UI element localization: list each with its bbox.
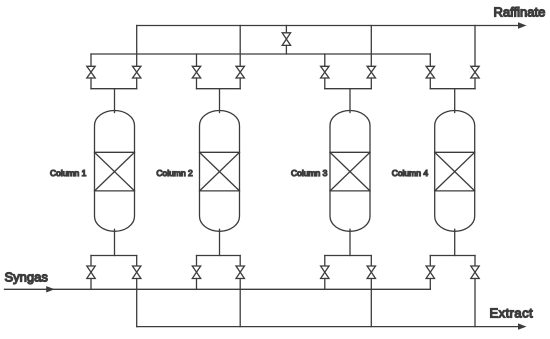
bypass valve V0 <box>282 33 290 46</box>
bottom valve V4RB <box>471 266 479 279</box>
column 1 bottom stub wire <box>114 229 116 255</box>
column 4 top valve tails <box>429 78 431 89</box>
column 4 right tail to extract line <box>474 279 476 327</box>
column 4 left drop wire (header to valve) <box>429 54 431 66</box>
column C1 packing (crossed box) <box>95 152 135 191</box>
column 4 bottom connector wire <box>430 255 475 257</box>
extract line <box>137 326 521 328</box>
column 2 bottom stub wire <box>219 229 221 255</box>
bottom valve V2LB <box>192 266 200 279</box>
svg-text:Column 1: Column 1 <box>50 168 87 178</box>
top valve V3L <box>321 66 329 78</box>
column C4 vessel <box>435 111 475 232</box>
column 2 right riser wire (top line to valve) <box>239 26 241 67</box>
bypass riser wire <box>285 26 287 33</box>
column 3 top stub wire <box>349 89 351 113</box>
column 4 right riser wire (top line to valve) <box>474 26 476 67</box>
column 3 right riser wire (top line to valve) <box>370 26 372 67</box>
column 4 top stub wire <box>454 89 456 113</box>
bottom valve V3RB <box>367 266 375 279</box>
column 3 top connector wire <box>325 88 372 90</box>
bottom valve V4LB <box>426 266 434 279</box>
column C3 vessel <box>330 111 370 232</box>
column C2 vessel <box>200 111 240 232</box>
column 2 top valve tails <box>196 78 198 89</box>
column 3 bottom connector wire <box>325 255 372 257</box>
svg-text:Column 4: Column 4 <box>392 168 429 178</box>
top valve V1L <box>87 66 95 78</box>
top valve V4R <box>471 66 479 78</box>
bottom valve V3LB <box>321 266 329 279</box>
svg-text:Column 3: Column 3 <box>291 168 328 178</box>
column 2 right tail to extract line <box>239 279 241 327</box>
svg-text:Extract: Extract <box>490 306 534 321</box>
column 2 top stub wire <box>219 89 221 113</box>
column 2 bottom valve heads <box>196 256 198 267</box>
column 4 bottom stub wire <box>454 229 456 255</box>
column 1 left drop wire (header to valve) <box>90 54 92 66</box>
raffinate header line <box>137 25 521 27</box>
column C2 packing (crossed box) <box>200 152 240 191</box>
column 4 left tail to syngas line <box>429 279 431 290</box>
column 1 top connector wire <box>91 88 137 90</box>
column 1 left tail to syngas line <box>90 279 92 290</box>
svg-text:Syngas: Syngas <box>5 270 49 285</box>
svg-text:Column 2: Column 2 <box>156 168 193 178</box>
top valve V3R <box>367 66 375 78</box>
column 3 right tail to extract line <box>370 279 372 327</box>
bottom valve V1RB <box>133 266 141 279</box>
column 2 left drop wire (header to valve) <box>196 54 198 66</box>
column 4 top connector wire <box>430 88 475 90</box>
raffinate arrowhead <box>518 22 527 28</box>
column 3 left tail to syngas line <box>324 279 326 290</box>
column 1 top stub wire <box>114 89 116 113</box>
bottom valve V1LB <box>87 266 95 279</box>
column 4 bottom valve heads <box>429 256 431 267</box>
top valve V2L <box>192 66 200 78</box>
column 1 bottom connector wire <box>91 255 137 257</box>
svg-text:Raffinate: Raffinate <box>494 5 546 20</box>
bypass lower wire <box>285 45 287 54</box>
column C1 vessel <box>95 111 135 232</box>
column 2 bottom connector wire <box>197 255 241 257</box>
column 1 top valve tails <box>90 78 92 89</box>
column 3 bottom valve heads <box>324 256 326 267</box>
top valve V2R <box>236 66 244 78</box>
syngas feed line <box>5 288 431 290</box>
column 2 top connector wire <box>197 88 241 90</box>
bottom valve V2RB <box>236 266 244 279</box>
second header line <box>91 53 430 55</box>
column 3 top valve tails <box>324 78 326 89</box>
syngas arrowhead <box>46 286 55 292</box>
column 3 bottom stub wire <box>349 229 351 255</box>
column 3 left drop wire (header to valve) <box>324 54 326 66</box>
top valve V4L <box>426 66 434 78</box>
column C4 packing (crossed box) <box>435 152 475 191</box>
top valve V1R <box>133 66 141 78</box>
extract arrowhead <box>518 323 527 329</box>
column 1 bottom valve heads <box>90 256 92 267</box>
column 1 right riser wire (top line to valve) <box>136 26 138 67</box>
column C3 packing (crossed box) <box>330 152 370 191</box>
column 1 right tail to extract line <box>136 279 138 327</box>
column 2 left tail to syngas line <box>196 279 198 290</box>
